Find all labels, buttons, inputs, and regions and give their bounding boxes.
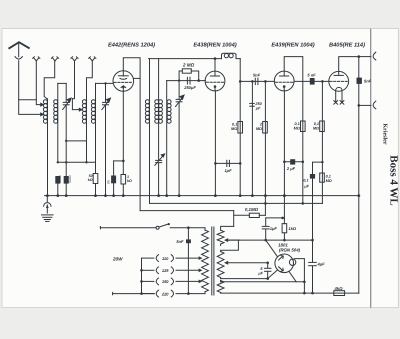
antenna tap arrow — [40, 112, 44, 116]
svg-text:5 nF: 5 nF — [307, 73, 316, 78]
wire bias row — [58, 161, 96, 163]
trimmer C7 — [178, 81, 180, 99]
svg-text:5000: 5000 — [58, 175, 62, 183]
coil L3a — [149, 59, 151, 204]
resistor R10 4k — [334, 291, 345, 296]
choke L4 — [222, 53, 237, 58]
anode feed diagonal 1 — [266, 240, 278, 257]
bus junction dots — [46, 194, 360, 197]
L1b top link to trimmer C1 — [58, 82, 66, 84]
grid wire V4 — [294, 80, 329, 82]
antenna — [9, 42, 30, 49]
svg-text:250μF: 250μF — [183, 85, 196, 90]
filament return wire — [221, 281, 305, 283]
capacitor C16 5uF — [267, 263, 269, 268]
svg-text:5nF: 5nF — [364, 79, 372, 84]
svg-text:0,1MΩ: 0,1MΩ — [245, 207, 259, 212]
capacitor C5 — [111, 176, 116, 184]
svg-text:5nF: 5nF — [176, 239, 184, 244]
svg-text:125: 125 — [162, 268, 169, 273]
trimmer C1 — [65, 83, 67, 101]
svg-text:0,1: 0,1 — [295, 122, 300, 126]
resistor R1 50k — [93, 174, 98, 184]
tube V4 B405 — [329, 71, 349, 91]
svg-text:5000: 5000 — [68, 175, 72, 183]
wire A2 to L1a top — [44, 61, 55, 99]
svg-text:B405(RE 114): B405(RE 114) — [329, 41, 365, 48]
wire to 4uF rail — [313, 162, 323, 261]
anode wire 2 horizontal — [221, 278, 268, 280]
svg-text:1μF: 1μF — [224, 168, 232, 173]
transformer primary — [204, 228, 206, 231]
terminal A1 — [33, 57, 40, 61]
terminal A3 — [71, 57, 78, 61]
cathode wire V2 — [214, 91, 216, 196]
schematic right border — [370, 29, 372, 308]
tap arrow A1 — [40, 103, 44, 107]
wire A3 tap into L2a — [72, 61, 79, 110]
coil L1a — [47, 99, 49, 196]
svg-text:(RGN 504): (RGN 504) — [279, 248, 301, 253]
svg-text:Kriesler: Kriesler — [382, 124, 389, 145]
svg-text:μF: μF — [255, 106, 261, 110]
terminal A4 — [89, 57, 96, 61]
selector row 125 — [142, 269, 154, 271]
resistor R3 2M loop — [179, 71, 182, 81]
heater x marks — [334, 101, 338, 105]
main bus — [45, 195, 359, 197]
capacitor C15 1uF — [265, 218, 267, 226]
S1 centre tap arrow — [224, 238, 228, 242]
RC filter top wire — [266, 217, 285, 219]
wire trimmer C2 down to bus — [105, 105, 107, 195]
coupling capacitor C10 5nF — [254, 78, 256, 84]
selector column — [141, 258, 143, 294]
svg-text:0,1: 0,1 — [326, 175, 331, 179]
anode wire V2 — [214, 59, 216, 72]
anode wire V4 — [339, 57, 359, 72]
output terminal T2 — [358, 104, 361, 107]
capacitor C12 2uF — [284, 161, 302, 163]
wire top to grid V3 — [239, 59, 241, 196]
S2 centre tap arrow — [224, 261, 228, 265]
screen stub V1 — [134, 77, 141, 79]
resistor R9 1k — [283, 218, 285, 224]
capacitor C18 5nF mains — [187, 228, 189, 240]
svg-text:MΩ: MΩ — [231, 127, 237, 131]
grid capacitor C8 — [186, 77, 188, 84]
resistor R11 0.1M — [320, 173, 325, 182]
output terminal T1 — [359, 56, 371, 58]
svg-text:0,1: 0,1 — [303, 179, 308, 183]
capacitor C4 — [64, 176, 69, 184]
switch S1 — [156, 226, 159, 229]
B+ wire — [227, 239, 312, 241]
capacitor C9 1uF — [215, 162, 240, 164]
resistor R2 cathode — [121, 175, 126, 185]
svg-text:E438(REN 1004): E438(REN 1004) — [193, 41, 236, 48]
screen feed line — [140, 210, 234, 212]
heater CT wire — [227, 262, 267, 264]
wire cathode row — [114, 160, 124, 162]
tube V1 E442 — [113, 71, 134, 92]
coil L2b — [95, 83, 97, 173]
svg-text:μF: μF — [257, 271, 263, 275]
trimmer C2 — [105, 83, 107, 101]
svg-text:2 MΩ: 2 MΩ — [182, 63, 195, 68]
svg-text:110: 110 — [162, 256, 169, 261]
resistor R7 0.1M grid — [321, 80, 324, 83]
secondary S3 — [217, 281, 224, 293]
mains wire top — [100, 227, 155, 229]
resistor R8 0.1M horizontal — [233, 211, 235, 227]
wire R6 to line — [302, 162, 304, 204]
selector row 110 — [142, 257, 154, 259]
svg-text:4μF: 4μF — [317, 261, 326, 266]
tube V2 E438 — [205, 71, 225, 91]
output wire — [295, 259, 305, 293]
S2 bottom lead — [220, 278, 222, 279]
svg-text:1μF: 1μF — [270, 226, 278, 231]
HT wire to V2 — [149, 58, 222, 60]
resistor R5 2M — [264, 80, 267, 83]
bridge antenna to A1 — [19, 99, 37, 101]
svg-text:20W: 20W — [112, 257, 123, 262]
resistor R6 0.1M anode — [301, 121, 306, 132]
svg-text:250: 250 — [254, 102, 262, 106]
resistor R4 0.1M — [238, 122, 243, 134]
grid wire V2 — [167, 80, 206, 82]
wire A1 — [36, 61, 41, 105]
svg-text:Boss 4 WL: Boss 4 WL — [388, 155, 400, 206]
capacitor C19 0.1uF — [310, 174, 315, 179]
link wire — [66, 140, 86, 142]
selector row 220 — [142, 293, 154, 295]
anode wire V1 — [123, 58, 140, 211]
capacitor C13 5nF — [310, 78, 315, 85]
selector row 150 — [142, 280, 154, 282]
coil L2a — [86, 97, 88, 163]
svg-text:220: 220 — [161, 291, 169, 296]
svg-text:1kΩ: 1kΩ — [288, 226, 296, 231]
antenna wire down — [19, 61, 42, 115]
secondary S1 heater — [217, 230, 224, 244]
grid capacitor C11 250pF — [251, 80, 254, 83]
filament leg diagonal — [289, 272, 296, 282]
coil L1b — [57, 83, 59, 162]
svg-text:MΩ: MΩ — [326, 179, 332, 183]
svg-text:2 μF: 2 μF — [286, 166, 296, 171]
svg-text:MΩ: MΩ — [294, 126, 300, 130]
wire A4 to L2a top — [87, 61, 93, 97]
bias line — [150, 202, 323, 204]
tube V3 E439 — [274, 71, 294, 91]
ground — [46, 196, 48, 202]
terminal A2 — [51, 57, 58, 61]
secondary S2 HV — [217, 252, 224, 278]
capacitor C3 — [55, 176, 60, 184]
bottom return wire — [221, 292, 359, 294]
right HT rail — [358, 57, 360, 294]
cathode wire V3 — [283, 91, 285, 218]
anode wire V3 — [284, 57, 303, 162]
anode feed diagonal 2 — [268, 270, 278, 279]
transformer core — [211, 227, 213, 295]
svg-text:MΩ: MΩ — [256, 127, 262, 131]
svg-text:MΩ: MΩ — [313, 126, 319, 130]
svg-text:150: 150 — [162, 279, 169, 284]
svg-text:50: 50 — [107, 180, 111, 184]
coil L3b — [158, 59, 160, 160]
svg-text:μF: μF — [303, 184, 309, 188]
tube V5 rectifier — [275, 254, 294, 273]
svg-text:kΩ: kΩ — [88, 178, 93, 182]
grid wire V1 — [106, 82, 114, 84]
4uF capacitor C17 — [309, 261, 317, 263]
cathode wire V1 — [122, 91, 124, 174]
svg-text:E442(RENS 1204): E442(RENS 1204) — [108, 41, 155, 48]
svg-text:5nF: 5nF — [253, 73, 261, 78]
capacitor C14 5nF out — [357, 78, 362, 84]
padder trimmer C6 — [156, 159, 162, 161]
svg-text:0,1: 0,1 — [232, 122, 237, 126]
svg-text:E439(REN 1004): E439(REN 1004) — [271, 41, 314, 48]
wire trimmer C1 down — [65, 105, 67, 176]
mains wire bottom — [113, 293, 155, 295]
L2b top link to trimmer C2 — [96, 82, 106, 84]
coil L3c — [166, 81, 168, 196]
svg-text:0,1: 0,1 — [314, 122, 319, 126]
svg-text:4kΩ: 4kΩ — [334, 286, 344, 291]
svg-text:kΩ: kΩ — [127, 179, 132, 183]
